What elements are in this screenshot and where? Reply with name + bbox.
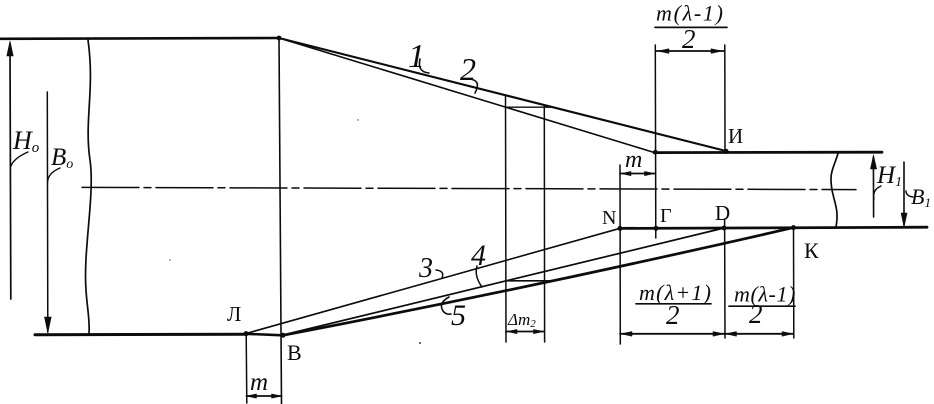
svg-text:4: 4: [471, 239, 486, 272]
svg-text:Δm2: Δm2: [507, 310, 536, 330]
wall: downstream bottom: [620, 227, 927, 228]
svg-text:Ho: Ho: [12, 126, 40, 156]
wire: D vertical bottom: [724, 219, 726, 338]
svg-text:К: К: [804, 238, 819, 263]
dm2 vertical 2: [543, 107, 545, 343]
helper horizontal top: [506, 106, 553, 108]
wall: upstream bottom: [35, 333, 247, 337]
leader H1: [874, 186, 881, 199]
leader for H0: [11, 152, 28, 166]
svg-text:2: 2: [666, 300, 680, 330]
dm2 vertical 1: [505, 96, 508, 342]
svg-text:2: 2: [749, 299, 763, 329]
leader for B0: [48, 168, 60, 182]
node I: [723, 149, 728, 154]
svg-text:Г: Г: [660, 205, 672, 227]
svg-text:2: 2: [682, 24, 696, 54]
svg-text:m(λ-1): m(λ-1): [734, 282, 796, 307]
centerline: [82, 187, 856, 189]
node top start: [277, 36, 282, 41]
line 3 transition bottom: [246, 228, 620, 333]
node D: [722, 226, 727, 231]
svg-text:И: И: [728, 124, 743, 148]
wall: upstream top: [0, 37, 279, 40]
dimension line B0 vertical with down arrow: [45, 92, 52, 333]
svg-text:3: 3: [418, 253, 433, 284]
line 1 transition top: [279, 38, 726, 151]
helper horizontal bottom: [506, 280, 551, 282]
node V: [281, 333, 286, 338]
svg-text:Л: Л: [227, 302, 241, 326]
dimension dm2 arrows: [506, 329, 544, 333]
wire: vertical below L: [245, 334, 248, 403]
node N: [618, 226, 623, 231]
node corner: [653, 150, 658, 155]
svg-text:D: D: [715, 201, 730, 225]
dimension bottom arrows N-D-K: [620, 332, 794, 337]
svg-text:m: m: [250, 369, 268, 396]
svg-text:m: m: [625, 147, 642, 173]
svg-text:Bo: Bo: [51, 144, 73, 172]
line 5 transition bottom thick: [283, 228, 794, 336]
svg-text:B1: B1: [911, 184, 931, 210]
svg-text:5: 5: [451, 299, 466, 332]
svg-text:2: 2: [460, 51, 476, 87]
svg-text:В: В: [287, 340, 302, 365]
svg-text:N: N: [602, 207, 616, 229]
line 2 transition top: [279, 38, 655, 152]
node K: [791, 225, 796, 230]
svg-text:1: 1: [408, 38, 425, 75]
wire: vertical through V: [279, 38, 282, 404]
line 4 transition bottom: [283, 228, 724, 335]
break wavy line right: [831, 154, 838, 228]
node G: [654, 226, 659, 231]
dimension B1 vertical with down arrow: [901, 162, 907, 227]
wire: ID vertical top: [724, 45, 726, 151]
dimension line H0 vertical with up arrow: [7, 41, 13, 299]
wall: downstream top: [654, 151, 882, 154]
wire: N vertical: [619, 165, 621, 344]
node L: [244, 331, 249, 336]
wire: segment L-V: [246, 334, 283, 336]
wire: G vertical: [654, 45, 657, 238]
break wavy line left: [86, 40, 92, 333]
wire: K vertical: [793, 228, 795, 338]
dimension top arrows: [656, 49, 725, 54]
dimension H1 vertical with up arrow: [870, 155, 876, 217]
svg-text:m(λ-1): m(λ-1): [656, 1, 725, 26]
leader B1: [906, 191, 913, 197]
